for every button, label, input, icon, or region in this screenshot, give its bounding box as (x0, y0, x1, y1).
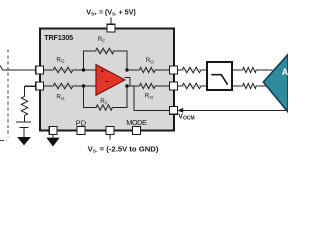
pin OUT- (170, 82, 178, 90)
supply stub VS- (109, 134, 111, 139)
wire VOCM internal (134, 86, 170, 110)
resistor ADC bottom (243, 83, 257, 88)
pin GND (49, 127, 57, 135)
IC body TRF1305 (40, 28, 174, 130)
svg-text:VS- = (-2.5V to GND): VS- = (-2.5V to GND) (88, 144, 159, 154)
resistor input termination (21, 97, 27, 116)
resistor RO2 (139, 83, 155, 88)
pin IN+ (36, 66, 44, 74)
pin VOCM (170, 107, 178, 115)
wire RO top row (127, 69, 170, 71)
wire filter to ADC top (232, 69, 273, 71)
pin IN- (36, 82, 44, 90)
node dot out- (125, 84, 128, 87)
wire RG bottom row (44, 85, 97, 87)
capacitor (16, 122, 31, 137)
op-amp TRF1305 core (96, 65, 125, 96)
resistor ext top (182, 67, 201, 73)
pin VS+ (107, 24, 115, 32)
wire RO bottom row (127, 85, 170, 87)
supply stub VS+ (110, 18, 112, 25)
ground (IC) (46, 138, 59, 147)
VOCM arrow (178, 108, 184, 113)
pin OUT+ (170, 66, 178, 74)
pin PD (77, 127, 85, 135)
pin MODE (133, 127, 141, 135)
resistor RF2 (96, 105, 113, 111)
ground stem under GND pin (52, 134, 54, 137)
wire amp output (125, 77, 130, 86)
feedback loop top (84, 51, 128, 70)
wire input corner (0, 66, 3, 71)
resistor ADC top (243, 67, 257, 72)
wire ext bottom row (177, 85, 207, 87)
resistor RG1 (53, 67, 73, 73)
feedback loop bottom (84, 86, 128, 108)
node dot in- (82, 84, 85, 87)
resistor RO1 (139, 67, 155, 72)
node dot out+ (125, 68, 128, 71)
resistor ext bottom (182, 83, 201, 89)
resistor RF1 (96, 48, 115, 54)
wire ext top row (177, 69, 207, 71)
node dot in+ (82, 68, 85, 71)
ADC triangle (263, 55, 288, 113)
svg-text:VOCM: VOCM (178, 114, 194, 122)
svg-text:MODE: MODE (126, 118, 147, 127)
wire VOCM external (181, 109, 288, 111)
dashed source box (0, 50, 8, 141)
wire filter to ADC bottom (232, 85, 268, 87)
svg-text:A: A (282, 67, 288, 77)
wire top input (3, 69, 37, 71)
svg-text:TRF1305: TRF1305 (44, 33, 73, 42)
resistor RG2 (53, 83, 73, 89)
wire bottom input stub (25, 87, 37, 97)
svg-text:PD: PD (76, 118, 87, 127)
wire to capacitor (24, 116, 26, 122)
wire RG top row (44, 69, 97, 71)
pin VS- (106, 127, 114, 135)
filter block (207, 62, 232, 90)
ground (input) (17, 137, 31, 145)
